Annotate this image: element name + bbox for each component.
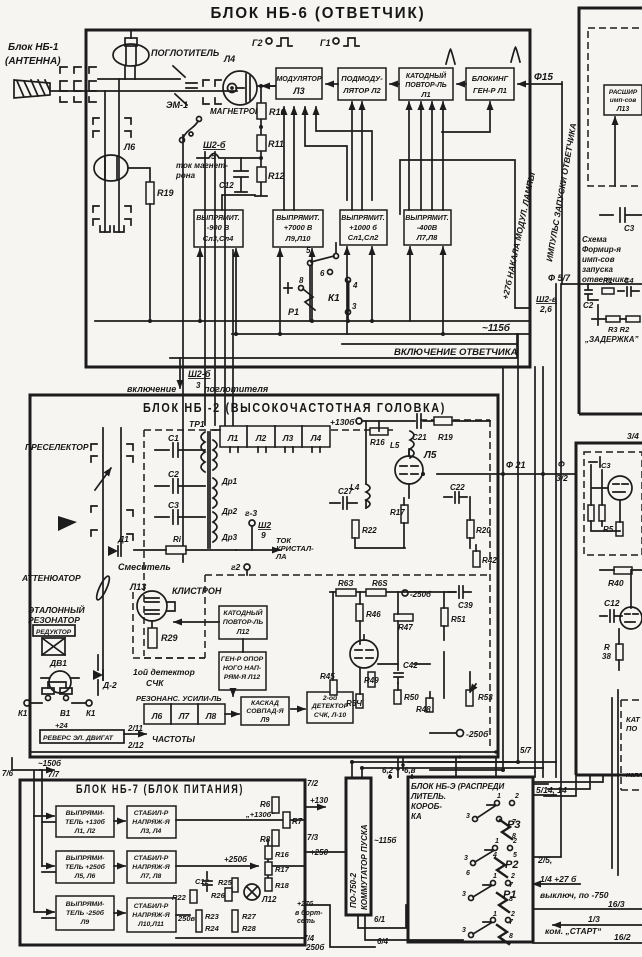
resistor R10	[257, 103, 266, 119]
svg-text:С22: С22	[450, 483, 465, 492]
wire TR1 top to tube row	[213, 429, 220, 431]
svg-text:Л4: Л4	[223, 54, 235, 64]
svg-text:6/1: 6/1	[374, 915, 386, 924]
svg-text:R18: R18	[275, 881, 290, 890]
arrows from bus into B2	[280, 249, 312, 334]
rectifier box -900V	[194, 210, 243, 247]
svg-text:ЛИТЕЛЬ.: ЛИТЕЛЬ.	[410, 792, 446, 801]
svg-text:Л10,Л11: Л10,Л11	[137, 921, 164, 928]
wire Sh2-6 drop to NB-2	[179, 358, 181, 388]
relay P1 zigzag contact	[284, 283, 315, 310]
svg-text:Л8: Л8	[205, 711, 217, 721]
vertical bus x503	[502, 367, 504, 770]
block NB-2 outline	[30, 395, 498, 757]
svg-text:Формир-я: Формир-я	[582, 245, 621, 254]
2nd detector box L-10	[307, 692, 353, 723]
svg-text:2/12: 2/12	[127, 741, 144, 750]
svg-text:R10: R10	[269, 107, 286, 117]
svg-text:КАТ: КАТ	[626, 715, 641, 724]
wires rectifier B1 feeds	[222, 195, 255, 210]
absorber tube (poglotitel)	[113, 30, 149, 79]
capacitor C1	[155, 443, 205, 457]
resistor R22 p	[190, 890, 197, 903]
svg-text:Л7, Л8: Л7, Л8	[140, 873, 162, 880]
resistor R16	[370, 428, 388, 435]
svg-text:ПОДМОДУ-: ПОДМОДУ-	[341, 74, 383, 83]
arrow up into L13	[614, 117, 616, 186]
wire F21 horizontal	[437, 473, 576, 475]
capacitor C4	[618, 287, 639, 296]
svg-text:R5Ч: R5Ч	[346, 699, 362, 708]
relay P1 contacts	[469, 881, 511, 945]
wire 16/2 line	[533, 942, 642, 944]
svg-text:5/14, 14: 5/14, 14	[536, 785, 567, 795]
svg-text:НАПРЯЖ-Я: НАПРЯЖ-Я	[132, 864, 170, 871]
svg-text:6/4: 6/4	[377, 937, 389, 946]
tube L14	[608, 476, 632, 500]
resistor R17	[401, 505, 408, 523]
wire crystal current	[134, 549, 236, 551]
resistor R23 R24	[196, 910, 202, 932]
svg-text:2: 2	[512, 838, 517, 845]
svg-text:3: 3	[464, 855, 468, 862]
capacitor C12 p	[203, 872, 212, 891]
svg-text:РЯМ-Я Л12: РЯМ-Я Л12	[224, 674, 261, 681]
second detector subcircuit wire top	[330, 591, 455, 593]
svg-text:КОММУТАТОР ПУСКА: КОММУТАТОР ПУСКА	[360, 824, 369, 910]
svg-text:Ф: Ф	[558, 459, 565, 469]
svg-text:ГЕН-Р Л1: ГЕН-Р Л1	[473, 86, 507, 95]
svg-text:7/7: 7/7	[48, 770, 60, 779]
svg-text:-250б: -250б	[410, 590, 432, 599]
svg-text:Д-2: Д-2	[102, 680, 117, 690]
svg-text:1: 1	[493, 873, 497, 880]
svg-text:БЛОК НБ-6 (ОТВЕТЧИК): БЛОК НБ-6 (ОТВЕТЧИК)	[211, 5, 426, 22]
test point G1 with pulse glyph	[320, 38, 359, 48]
svg-text:ПО: ПО	[626, 724, 637, 733]
test point G2 with pulse glyph	[252, 38, 292, 48]
svg-text:Л1: Л1	[420, 90, 430, 99]
label KAT PO	[626, 715, 641, 733]
resistor R26	[225, 888, 232, 901]
svg-text:2,6: 2,6	[539, 304, 552, 314]
svg-text:ПОВТОР-ЛЬ: ПОВТОР-ЛЬ	[223, 619, 263, 626]
svg-text:НАПРЯЖ-Я: НАПРЯЖ-Я	[132, 819, 170, 826]
dashed box in block A	[588, 28, 642, 186]
lamp L12	[244, 884, 260, 900]
motor DV1	[41, 671, 79, 693]
svg-text:С3: С3	[601, 461, 611, 470]
arrows from bus into B1	[200, 249, 236, 334]
feed wires NB-7	[12, 758, 42, 866]
svg-text:R42: R42	[482, 556, 497, 565]
label etalonny rezonator	[28, 604, 85, 625]
resistor R38	[616, 644, 623, 660]
svg-text:ЭТАЛОННЫЙ: ЭТАЛОННЫЙ	[28, 604, 85, 615]
label +27V bort	[295, 900, 323, 925]
svg-text:Л6: Л6	[123, 142, 136, 152]
ferrite switch EM-1 marks	[173, 66, 197, 105]
svg-text:6: 6	[320, 269, 325, 278]
svg-text:Ф 21: Ф 21	[506, 460, 526, 470]
svg-text:РЕЗОНАНС. УСИЛИ-ЛЬ: РЕЗОНАНС. УСИЛИ-ЛЬ	[136, 694, 222, 703]
svg-text:3: 3	[462, 891, 466, 898]
rectifier box +130V L1 L2	[56, 806, 114, 837]
svg-text:В1: В1	[60, 709, 71, 718]
svg-text:ком. „СТАРТ“: ком. „СТАРТ“	[545, 926, 602, 936]
svg-text:БЛОК НБ -2 (ВЫСОКОЧАСТОТНАЯ: БЛОК НБ -2 (ВЫСОКОЧАСТОТНАЯ ГОЛОВКА)	[143, 400, 446, 415]
svg-text:Л13: Л13	[616, 106, 630, 113]
svg-text:R28: R28	[242, 924, 257, 933]
relay P3 contacts	[473, 801, 515, 840]
gen opornogo box	[219, 652, 266, 690]
commutator box PO-750-2	[346, 778, 371, 915]
label 6/2 6/8 wires	[390, 775, 412, 777]
svg-text:Ш2-в: Ш2-в	[536, 294, 557, 304]
svg-text:Rі: Rі	[173, 535, 182, 544]
svg-text:R6: R6	[260, 800, 271, 809]
svg-text:1/4 +27 б: 1/4 +27 б	[540, 874, 577, 884]
svg-text:7/2: 7/2	[307, 779, 319, 788]
svg-text:Л13: Л13	[129, 582, 146, 592]
tube row box L1-L4	[220, 426, 330, 452]
svg-text:Ф 5/7: Ф 5/7	[548, 273, 571, 283]
svg-text:R5: R5	[603, 525, 614, 534]
svg-text:R47: R47	[398, 623, 413, 632]
resistor R20	[467, 520, 474, 538]
wire magnetron to R10	[255, 86, 275, 196]
resistor R1 nb2	[166, 546, 186, 554]
svg-text:1: 1	[497, 793, 501, 800]
svg-text:ДЕТЕКТОР: ДЕТЕКТОР	[311, 703, 349, 710]
svg-text:Л5, Л6: Л5, Л6	[74, 873, 96, 880]
resistor R42	[473, 551, 480, 567]
resistor R18 p	[265, 878, 272, 891]
submodulator box L2	[338, 68, 386, 100]
svg-text:ЭМ-1: ЭМ-1	[166, 100, 188, 110]
svg-text:3: 3	[466, 813, 470, 820]
svg-text:250б: 250б	[305, 943, 325, 952]
svg-text:Блок НБ-1: Блок НБ-1	[8, 42, 59, 53]
svg-text:4: 4	[492, 852, 497, 859]
svg-text:7: 7	[509, 882, 514, 889]
svg-text:Д1: Д1	[117, 534, 129, 544]
staircase bus right bottom	[533, 690, 618, 875]
svg-text:Ш2: Ш2	[258, 520, 271, 530]
svg-text:К1: К1	[18, 709, 28, 718]
resistor R3	[606, 316, 620, 322]
svg-text:ДВ1: ДВ1	[49, 658, 67, 668]
svg-text:Л1, Л2: Л1, Л2	[74, 828, 96, 835]
vertical bus x556	[555, 284, 557, 762]
resistor R12	[257, 167, 266, 182]
svg-text:-900 В: -900 В	[207, 223, 230, 232]
svg-text:Др3: Др3	[221, 533, 238, 542]
svg-text:Л9: Л9	[80, 919, 90, 926]
modulator box L3	[276, 68, 322, 99]
svg-text:8: 8	[509, 896, 513, 903]
arrow L12 to klystron	[174, 621, 219, 623]
arrow gen to kaskad	[232, 690, 234, 696]
resistor R50	[394, 690, 401, 704]
svg-text:Л4: Л4	[310, 433, 322, 443]
terminal g-3	[245, 508, 257, 550]
pulse symbol above blocking gen	[511, 47, 520, 62]
svg-text:R26: R26	[211, 891, 226, 900]
svg-text:R12: R12	[268, 171, 285, 181]
junction dots on buses	[148, 319, 445, 336]
bus turns above NB-3	[398, 757, 556, 777]
svg-text:ЛЯТОР Л2: ЛЯТОР Л2	[342, 86, 381, 95]
diode D1	[108, 546, 118, 556]
svg-text:Р1: Р1	[288, 307, 299, 317]
bus ~115V lower	[232, 333, 528, 335]
svg-text:Л1: Л1	[227, 433, 239, 443]
svg-text:~150б: ~150б	[38, 759, 62, 768]
wire 6/4	[365, 915, 463, 942]
svg-text:РЕЗОНАТОР: РЕЗОНАТОР	[28, 615, 80, 625]
svg-text:С39: С39	[458, 601, 473, 610]
svg-text:К1: К1	[86, 709, 96, 718]
svg-text:ВЫПРЯМИТ.: ВЫПРЯМИТ.	[341, 215, 385, 222]
svg-text:С4: С4	[624, 276, 634, 285]
svg-text:ПОГЛОТИТЕЛЬ: ПОГЛОТИТЕЛЬ	[151, 48, 220, 58]
pulse symbol above cathode follower	[446, 49, 455, 64]
resistor R22 nb2	[352, 520, 359, 538]
svg-text:Схема: Схема	[582, 235, 607, 244]
magnetron tube L4	[223, 71, 257, 105]
attenuator blade	[94, 575, 111, 602]
svg-text:К1: К1	[328, 293, 340, 304]
wire R19 down	[149, 204, 151, 321]
svg-text:МАГНЕТРОН: МАГНЕТРОН	[210, 107, 261, 116]
svg-text:в борт-: в борт-	[295, 909, 323, 917]
preselector waveguide verticals	[103, 428, 121, 680]
wire L12 boxes link	[242, 639, 244, 652]
block NB-2 bottom double line	[30, 751, 498, 753]
svg-text:R16: R16	[370, 438, 385, 447]
capacitor C12	[234, 158, 248, 192]
scheme block A outline top right	[579, 8, 642, 414]
switch contact 5-6	[308, 243, 339, 321]
svg-text:~115б: ~115б	[374, 836, 397, 845]
reduktor small box	[33, 625, 75, 636]
svg-text:С12: С12	[219, 181, 234, 190]
svg-text:Р2: Р2	[505, 859, 518, 871]
svg-text:Л7,Л8: Л7,Л8	[416, 233, 439, 242]
wire S3 output	[176, 915, 305, 938]
label schema formir imp-sov	[582, 235, 629, 284]
wire R40	[600, 569, 642, 571]
svg-text:ВЫПРЯМИ-: ВЫПРЯМИ-	[66, 901, 105, 908]
svg-text:КОРОБ-: КОРОБ-	[411, 802, 442, 811]
svg-text:9: 9	[261, 530, 266, 540]
svg-text:+250б: +250б	[224, 855, 248, 864]
block NB-6 outline	[86, 30, 530, 367]
resistor pair b1	[588, 505, 594, 521]
resistor R16 p	[265, 846, 272, 859]
resistor R5	[616, 522, 623, 536]
svg-text:R24: R24	[205, 924, 220, 933]
pulse expander box L13	[604, 85, 642, 115]
labels P3 pins	[466, 793, 519, 840]
wire commutator top links	[352, 762, 556, 778]
dashed box around klystron	[133, 592, 205, 658]
svg-text:7/4: 7/4	[303, 934, 315, 943]
svg-text:(АНТЕННА): (АНТЕННА)	[5, 56, 61, 67]
svg-text:НАПРЯЖ-Я: НАПРЯЖ-Я	[132, 912, 170, 919]
label 1st detector	[133, 667, 195, 688]
klystron tube	[137, 591, 175, 627]
svg-text:Л5: Л5	[423, 450, 437, 461]
arrows B4 top to cathode follower	[409, 102, 443, 210]
resistor R46	[356, 604, 363, 621]
svg-text:С2: С2	[583, 301, 594, 310]
svg-text:РЕВЕРС ЭЛ. ДВИГАТ: РЕВЕРС ЭЛ. ДВИГАТ	[43, 735, 114, 742]
wire 6/1	[358, 905, 408, 928]
block NB-3 outline	[408, 777, 533, 942]
svg-text:СТАБИЛ-Р: СТАБИЛ-Р	[134, 903, 169, 910]
svg-text:СОВПАД-Я: СОВПАД-Я	[246, 708, 284, 715]
arrow V3 to S3	[114, 912, 125, 914]
wire F5/7 horizontal	[562, 283, 642, 285]
magnetron current loop	[197, 154, 261, 159]
svg-text:8: 8	[299, 276, 304, 285]
vertical bus x518	[517, 334, 519, 762]
svg-text:Др1: Др1	[221, 477, 238, 486]
wire L6 to R19	[128, 168, 150, 182]
terminal -250V nb2	[402, 590, 432, 599]
svg-text:R11: R11	[268, 139, 284, 149]
svg-text:2/11: 2/11	[127, 724, 144, 733]
capacitor C3 b	[589, 457, 600, 467]
svg-text:БЛОК НБ-Э (РАСПРЕДИ: БЛОК НБ-Э (РАСПРЕДИ	[411, 782, 505, 791]
svg-text:R20: R20	[476, 526, 491, 535]
svg-text:Л2: Л2	[255, 433, 267, 443]
tube b2	[620, 607, 642, 629]
arrow 2/11	[124, 733, 146, 735]
svg-text:запуска: запуска	[582, 265, 613, 274]
svg-text:R48: R48	[416, 705, 431, 714]
resistor R2	[626, 316, 640, 322]
svg-text:ТЕЛЬ +250б: ТЕЛЬ +250б	[65, 863, 105, 871]
svg-text:R46: R46	[366, 610, 381, 619]
svg-text:6: 6	[466, 870, 470, 877]
svg-text:РАСШИР: РАСШИР	[609, 89, 638, 96]
rectifier box -250V L9	[56, 896, 114, 930]
rectifier box +7000V	[273, 210, 323, 247]
arrow L2 to L3	[326, 83, 338, 85]
svg-text:Л6: Л6	[151, 711, 163, 721]
wire delay net	[592, 305, 626, 325]
vertical bus x561	[560, 284, 562, 856]
potentiometer R53	[466, 684, 476, 706]
stabilizer box L10 L11	[127, 898, 176, 932]
svg-text:5: 5	[513, 852, 517, 859]
capacitor C12 b	[600, 610, 622, 622]
svg-text:+1000 б: +1000 б	[349, 223, 377, 232]
waveguide flange marks vertical runs	[93, 118, 131, 232]
waveguide vertical lines	[105, 79, 119, 232]
resistor R49	[368, 672, 375, 687]
cathode follower box L1	[399, 68, 453, 100]
svg-text:R6З: R6З	[338, 579, 353, 588]
wires L5 stage	[355, 421, 476, 551]
arrow kom start	[553, 924, 642, 926]
svg-text:R23: R23	[205, 912, 220, 921]
labels P2 pins	[464, 838, 517, 877]
svg-text:СТАБИЛ-Р: СТАБИЛ-Р	[134, 855, 169, 862]
svg-text:КАСКАД: КАСКАД	[251, 700, 279, 707]
capacitor C2	[585, 284, 598, 300]
wires 2nd det cluster	[333, 592, 470, 698]
label Sh2-6/2,6	[536, 294, 557, 314]
svg-text:С3: С3	[624, 224, 635, 233]
label F 3/2	[556, 459, 568, 483]
svg-text:КЛИСТРОН: КЛИСТРОН	[172, 586, 222, 596]
svg-text:+130б: +130б	[330, 417, 355, 427]
arrows B2 top to modulator L3	[284, 107, 372, 210]
svg-text:С27: С27	[338, 487, 353, 496]
resistor R40	[614, 567, 632, 574]
relay P2 contacts	[471, 846, 513, 878]
svg-text:МОДУЛЯТОР: МОДУЛЯТОР	[276, 76, 321, 83]
svg-text:Л7: Л7	[178, 711, 191, 721]
amplifier box L6 L7 L8	[144, 704, 225, 724]
coil L4	[366, 484, 370, 508]
kaskad sovpad box L9	[241, 697, 289, 725]
svg-text:ВЫПРЯМИТ.: ВЫПРЯМИТ.	[276, 215, 320, 222]
waveguide main horizontal	[50, 90, 237, 92]
svg-text:Ф15: Ф15	[534, 72, 553, 83]
wire P3 out	[533, 784, 556, 795]
arrow L1 to L2	[390, 83, 399, 85]
svg-text:„+130б“: „+130б“	[245, 810, 275, 819]
svg-text:С42: С42	[403, 661, 418, 670]
resistor pair b2	[599, 505, 605, 521]
arrow +130 out	[305, 806, 325, 808]
antenna horn	[14, 80, 50, 98]
svg-text:Л3: Л3	[292, 86, 304, 96]
svg-text:ПОВТОР-ЛЬ: ПОВТОР-ЛЬ	[405, 82, 447, 89]
arrow F15 into blocking gen	[518, 83, 562, 85]
arrows B3 top to submodulator L2	[352, 102, 362, 210]
terminal +130V	[330, 417, 362, 427]
arrows from bus into B3	[347, 247, 372, 334]
svg-text:7/3: 7/3	[307, 833, 319, 842]
svg-text:сеть: сеть	[297, 918, 315, 925]
svg-text:R17: R17	[390, 508, 405, 517]
resistor R27 R28	[232, 910, 238, 932]
svg-text:R49: R49	[364, 676, 379, 685]
waveguide upper line	[98, 78, 180, 80]
svg-text:Л9: Л9	[260, 717, 270, 724]
vertical bus x535	[534, 367, 536, 772]
resistor R48	[426, 698, 433, 712]
wires block B upper	[591, 465, 620, 531]
wire P2 out	[533, 856, 561, 858]
svg-text:Сл1,Сл2: Сл1,Сл2	[348, 233, 379, 242]
svg-text:ВЫПРЯМИТ.: ВЫПРЯМИТ.	[196, 215, 240, 222]
terminal -250V bottom	[430, 729, 489, 739]
arrows from bus into B4	[410, 247, 443, 334]
svg-text:16/2: 16/2	[614, 932, 631, 942]
svg-text:2: 2	[510, 911, 515, 918]
svg-text:Л9,Л10: Л9,Л10	[285, 234, 312, 243]
preselector flange marks	[91, 444, 133, 540]
svg-text:С12: С12	[604, 598, 620, 608]
svg-text:R8: R8	[260, 835, 271, 844]
